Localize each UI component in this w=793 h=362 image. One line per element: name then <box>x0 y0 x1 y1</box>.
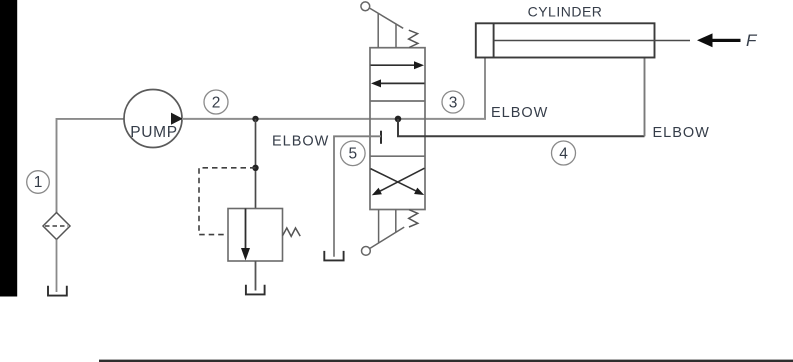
wire: DCV tank port to elbow 5 and down to tank <box>334 136 381 256</box>
svg-text:ELBOW: ELBOW <box>491 105 548 121</box>
node 5 circled label <box>341 141 366 166</box>
svg-text:5: 5 <box>348 146 357 163</box>
directional control valve U1 body (3 position) <box>370 48 425 210</box>
wire: relief valve drain to tank <box>255 261 257 291</box>
pump P1 <box>124 90 183 148</box>
junction dot inside DCV centre box <box>395 116 402 123</box>
elbow 4 label text <box>653 125 710 141</box>
svg-text:F: F <box>746 31 758 50</box>
DCV bottom roller-lever actuator <box>362 210 405 256</box>
svg-text:4: 4 <box>559 145 568 162</box>
node 1 circled label <box>27 171 50 194</box>
wire: filter to tank <box>56 240 58 293</box>
elbow 5 label text <box>272 134 329 150</box>
junction dot at pilot line tap <box>252 165 258 171</box>
wire: pump discharge line to elbow 3 riser <box>182 58 485 119</box>
DCV top roller-lever actuator <box>361 2 403 48</box>
force arrow F <box>697 31 758 50</box>
relief valve flow arrow <box>241 209 250 261</box>
svg-text:CYLINDER: CYLINDER <box>528 4 603 20</box>
DCV bottom return spring <box>409 210 418 227</box>
tank symbol T2 below relief valve <box>246 285 265 295</box>
relief valve V1 body <box>228 209 283 262</box>
junction dot at pump discharge tee <box>252 116 258 122</box>
svg-text:ELBOW: ELBOW <box>653 125 710 141</box>
elbow 3 label text <box>491 105 548 121</box>
tank symbol T1 below filter <box>48 286 67 296</box>
svg-text:3: 3 <box>449 94 458 111</box>
cylinder C1 body <box>476 23 655 57</box>
svg-text:2: 2 <box>212 94 221 111</box>
svg-text:1: 1 <box>34 174 43 191</box>
DCV top return spring <box>409 30 418 47</box>
svg-text:ELBOW: ELBOW <box>272 134 329 150</box>
cylinder piston <box>493 23 495 57</box>
DCV tank port plug (T bar) <box>380 131 382 144</box>
wire: DCV branch to elbow 4 and riser to cylinder rod end <box>398 58 645 137</box>
DCV bottom position crossed arrow A <box>372 168 425 195</box>
filter F1 (diamond with dashed element) <box>43 213 70 240</box>
wire: tee down to relief valve inlet <box>255 119 257 209</box>
node 4 circled label <box>552 141 576 165</box>
cylinder rod <box>494 40 690 42</box>
relief valve spring <box>283 228 301 236</box>
pilot line (dashed) to relief valve <box>199 168 256 235</box>
DCV bottom position crossed arrow B <box>371 169 425 195</box>
node 2 circled label <box>204 90 228 114</box>
DCV top position flow arrow right <box>371 61 425 69</box>
cylinder label text <box>528 4 603 20</box>
svg-text:PUMP: PUMP <box>130 124 178 141</box>
DCV top position flow arrow left <box>371 79 425 87</box>
wire: pump suction line from filter riser to pump inlet <box>57 119 125 213</box>
node 3 circled label <box>442 91 464 113</box>
tank symbol T3 on line 5 <box>324 251 343 261</box>
